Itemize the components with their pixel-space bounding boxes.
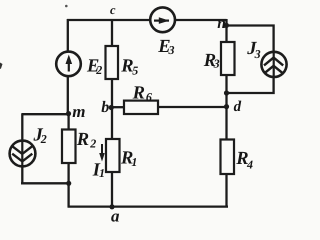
current arrow I1 (99, 144, 105, 162)
svg-text:2: 2 (40, 132, 47, 146)
current source J3 (261, 52, 286, 78)
label R3 (203, 51, 220, 71)
node d lower junction (224, 104, 229, 109)
wire J2 vertical (21, 113, 23, 183)
speck artifact (65, 5, 68, 8)
svg-text:R: R (76, 130, 89, 150)
svg-text:4: 4 (246, 158, 253, 172)
svg-text:5: 5 (132, 63, 138, 77)
svg-text:2: 2 (89, 136, 96, 150)
label R4 (235, 149, 253, 172)
node d upper junction (224, 90, 229, 95)
wire m to bottom (through R2) (67, 113, 69, 207)
svg-text:3: 3 (213, 57, 220, 71)
svg-text:b: b (101, 99, 109, 116)
resistor R6 (124, 101, 158, 114)
label R2 (76, 130, 97, 151)
label J2 (33, 126, 47, 146)
svg-text:2: 2 (95, 63, 102, 77)
voltage source E3 (150, 7, 175, 32)
resistor R2 (62, 130, 76, 164)
wire bottom a (68, 205, 229, 207)
label R1 (120, 149, 137, 170)
svg-text:3: 3 (168, 43, 175, 57)
resistor R3 (221, 42, 235, 75)
wire right vertical n-d-R4 (225, 19, 227, 207)
svg-text:c: c (110, 3, 116, 17)
wire R6 to d (158, 106, 227, 108)
svg-text:a: a (111, 207, 120, 226)
svg-text:R: R (132, 84, 145, 104)
current source J2 (10, 141, 36, 167)
wire left vertical (top corner to m) (67, 19, 69, 113)
label R6 (132, 84, 152, 104)
svg-text:d: d (234, 99, 242, 115)
node a (109, 204, 114, 209)
node m (66, 111, 71, 116)
label R5 (120, 57, 138, 78)
edge artifact (0, 63, 3, 70)
svg-text:6: 6 (146, 90, 152, 104)
resistor R1 (106, 139, 120, 172)
label E2 (86, 56, 102, 77)
voltage source E2 (56, 52, 81, 77)
wire b to R6 (111, 106, 124, 108)
wire n to J3 loop (227, 26, 274, 94)
resistor R5 (106, 46, 119, 79)
label E3 (157, 37, 174, 57)
node n (224, 23, 229, 28)
wire top c-n (67, 19, 227, 21)
junction dot left-bottom (66, 181, 71, 186)
node b (109, 105, 114, 110)
wire J2 bottom to junction (21, 182, 69, 184)
svg-text:1: 1 (99, 166, 105, 180)
svg-text:n: n (217, 15, 226, 32)
label J3 (246, 39, 260, 61)
label I1 (92, 160, 105, 180)
wire m to J2 branch (22, 113, 68, 115)
resistor R4 (221, 140, 235, 175)
svg-text:1: 1 (131, 155, 137, 169)
svg-text:3: 3 (254, 47, 261, 61)
svg-text:m: m (72, 102, 85, 121)
wire c vertical (c to a through R5, R1) (111, 19, 113, 207)
